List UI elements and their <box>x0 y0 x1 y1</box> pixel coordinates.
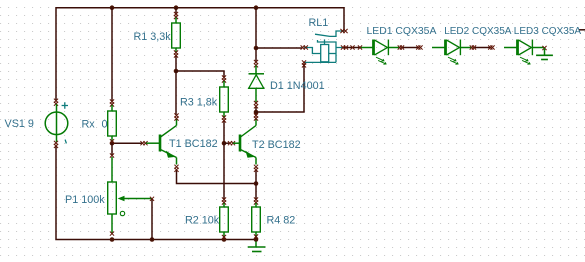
relay pin marks <box>340 29 344 33</box>
wire node down to P1 top <box>111 143 113 154</box>
wire T1 emitter to common emitter node <box>177 171 257 184</box>
relay RL1 <box>304 31 344 62</box>
wire emitter node down to R4 top <box>255 184 257 199</box>
transistor T2 <box>228 113 258 171</box>
wire D1 node to relay coil left pin <box>256 47 302 49</box>
wire node to relay coil bottom pin <box>256 65 304 113</box>
transistor T1 <box>140 113 178 171</box>
wire P1 wiper down to ground rail <box>151 200 153 240</box>
node R1-R3-T1C junction <box>174 69 179 74</box>
wire Rx bottom node to T1 base <box>112 142 141 144</box>
wire node down to T1 collector <box>175 71 177 114</box>
resistor Rx <box>108 99 117 143</box>
wire relay contact pin to LED1 <box>344 47 360 49</box>
svg-text:T2 BC182: T2 BC182 <box>252 139 301 151</box>
wire node to R3 top <box>176 71 224 77</box>
ground after LED3 <box>536 46 553 60</box>
svg-text:RL1: RL1 <box>309 17 329 29</box>
wire rail down to D1 cathode node <box>255 8 257 61</box>
wire node down to R2 top <box>223 143 225 198</box>
node emitter-R4 junction <box>254 181 259 186</box>
svg-text:R4 82: R4 82 <box>267 214 296 226</box>
svg-text:P1 100k: P1 100k <box>65 194 105 206</box>
wire LED1 to LED2 <box>402 47 419 49</box>
diode D1 <box>249 60 265 109</box>
LED LED1 <box>360 40 400 65</box>
wire rail to Rx top <box>111 8 113 100</box>
svg-text:LED2 CQX35A: LED2 CQX35A <box>444 26 512 37</box>
svg-text:D1 1N4001: D1 1N4001 <box>270 80 325 92</box>
voltage source VS1 <box>45 99 68 148</box>
svg-text:R3 1,8k: R3 1,8k <box>180 96 218 108</box>
wire VS1 bottom to ground rail <box>56 147 256 240</box>
svg-text:R1 3,3k: R1 3,3k <box>134 31 172 43</box>
svg-text:R2 10k: R2 10k <box>185 214 220 226</box>
svg-text:0: 0 <box>102 118 108 130</box>
node Rx-base-P1 junction <box>110 141 115 146</box>
LED LED3 <box>504 40 544 65</box>
node rail-Rx junction <box>110 5 115 10</box>
wire R1 bottom to collector node <box>175 57 177 72</box>
node rail-R1 junction <box>174 5 179 10</box>
wire LED2 to LED3 <box>474 47 491 49</box>
wire top supply rail from VS1 to relay <box>56 8 344 100</box>
svg-text:VS1 9: VS1 9 <box>5 118 34 130</box>
node rail-D1 junction <box>254 5 259 10</box>
resistor R4 <box>252 197 261 238</box>
node D1-T2C-relay junction <box>254 110 259 115</box>
svg-text:LED1 CQX35A: LED1 CQX35A <box>367 26 437 37</box>
node bottom-wiper junction <box>150 237 155 242</box>
wire R3 bottom to T2 base node <box>223 122 225 144</box>
node D1-relay junction <box>254 46 259 51</box>
wire T2 emitter down <box>255 171 257 184</box>
wire D1 anode node <box>255 107 257 114</box>
node bottom-R4-ground junction <box>254 237 259 242</box>
node bottom-R2 junction <box>222 237 227 242</box>
wire cropped segment at right edge <box>580 29 585 31</box>
potentiometer P1 <box>108 153 154 235</box>
svg-text:Rx: Rx <box>82 118 96 130</box>
resistor R1 <box>172 12 181 58</box>
node R3-T2B-R2 junction <box>222 141 227 146</box>
ground under R4 <box>248 242 266 252</box>
svg-text:LED3 CQX35A: LED3 CQX35A <box>514 26 582 37</box>
wire rail to R1 top <box>175 8 177 14</box>
svg-text:T1 BC182: T1 BC182 <box>169 138 218 150</box>
node bottom-P1 junction <box>110 237 115 242</box>
resistor R2 <box>220 197 229 239</box>
LED LED2 <box>432 40 472 65</box>
wire node to T2 base <box>224 142 229 144</box>
resistor R3 <box>220 75 229 122</box>
